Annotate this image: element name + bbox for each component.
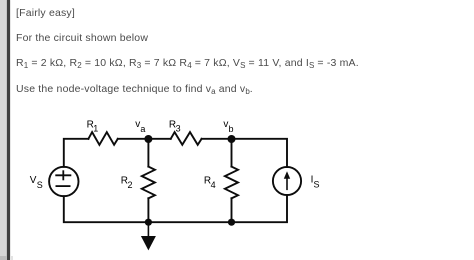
resistor R1 [88, 132, 117, 145]
faint lower divider stub [11, 256, 13, 260]
resistor R4 [225, 167, 238, 199]
VS minus sign [56, 185, 69, 187]
paragraph line 4 [16, 83, 253, 96]
ground stem [147, 225, 149, 236]
label R4 [204, 176, 216, 191]
label R3 [169, 119, 181, 133]
IS arrow [284, 171, 290, 189]
svg-text:S: S [37, 180, 43, 190]
wire: R2 to bottom node [147, 198, 149, 222]
svg-text:4: 4 [211, 180, 216, 190]
label R2 [121, 176, 133, 191]
svg-text:b: b [229, 124, 234, 134]
bottom junction dot below R4 [228, 219, 235, 226]
label va [135, 119, 145, 134]
resistor R3 [171, 132, 202, 145]
svg-text:a: a [140, 124, 145, 134]
wire: bottom segment between R2 and R4 nodes [148, 221, 231, 223]
bottom-left darker corner block [0, 256, 7, 260]
left grey gutter strip [0, 0, 7, 260]
wire: R3 to node vb [202, 138, 232, 140]
dark vertical border line [7, 0, 10, 260]
node vb junction dot [228, 135, 236, 143]
wire: node va down to R2 [147, 139, 149, 167]
resistor R2 [142, 167, 155, 199]
label VS [30, 175, 43, 190]
bottom junction dot below R2 [145, 219, 152, 226]
wire: bottom-right segment and up to IS [232, 195, 288, 222]
current source IS circle [273, 167, 301, 195]
label R1 [87, 119, 99, 133]
wire: VS bottom to bottom-left corner [64, 196, 149, 222]
paragraph line 1 [16, 7, 75, 19]
svg-text:S: S [314, 180, 320, 190]
node va junction dot [144, 135, 152, 143]
label vb [223, 119, 233, 134]
label IS [311, 175, 320, 190]
voltage source VS circle [49, 167, 78, 196]
wire: node vb down to R4 [231, 139, 233, 167]
paragraph line 2 [16, 32, 148, 44]
ground symbol triangle [141, 236, 156, 250]
wire: node va to R3 [148, 138, 170, 140]
svg-text:1: 1 [93, 123, 98, 133]
wire: R1 to node va [118, 138, 149, 140]
paragraph line 3 [16, 57, 359, 70]
wire: R4 to bottom wire [231, 198, 233, 222]
wire: top-left segment from VS branch to R1 [64, 139, 89, 167]
VS plus sign [56, 171, 70, 179]
wire: node vb to top-right corner and down to IS [232, 139, 288, 167]
svg-text:2: 2 [128, 180, 133, 190]
svg-text:3: 3 [176, 123, 181, 133]
